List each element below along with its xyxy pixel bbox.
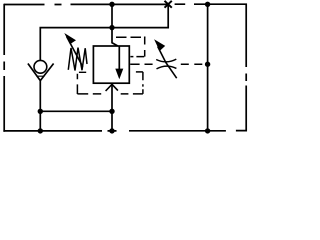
- dashed pilot line to orifice (left of orifice): [130, 63, 152, 65]
- wire: from valve bottom to bottom bus: [111, 84, 113, 131]
- node: orifice line at right bus: [205, 62, 210, 67]
- enclosure border right: [245, 4, 247, 132]
- valve V1 envelope: [93, 46, 129, 83]
- check valve CV1: seat triangle: [37, 76, 44, 80]
- spring S1 base plate: [79, 71, 86, 73]
- wire: check valve to bottom bus: [39, 81, 41, 131]
- node: junction on pilot line y28: [109, 25, 114, 30]
- dashed drain: stub right of envelope y71.9: [136, 71, 143, 73]
- enclosure border top (dash-dot): [4, 3, 185, 5]
- wire: horizontal link y111.7: [40, 110, 112, 112]
- dashed pilot line to orifice (right of orifice): [181, 63, 208, 65]
- node: top bus at right bus: [205, 2, 210, 7]
- dashed drain: bottom run y93.7: [77, 93, 142, 95]
- orifice upper arc: [156, 59, 176, 62]
- valve V1 flow arrowhead: [115, 69, 123, 80]
- spring S1 (adjustable) zigzag: [68, 48, 87, 71]
- check valve CV1: seat V: [28, 64, 54, 81]
- pilot box dashed right edge: [144, 37, 146, 57]
- plugged port X: [165, 1, 172, 8]
- adjustment arrowhead (spring): [64, 33, 76, 44]
- wire: top bus from spring side to plugged port X: [71, 3, 169, 5]
- pilot box dashed top edge: [116, 36, 145, 38]
- orifice lower arc: [157, 66, 177, 69]
- orifice adjustment arrow shaft: [158, 47, 177, 79]
- wire: main vertical from top bus into valve: [112, 4, 118, 46]
- enclosure border bottom: [3, 130, 247, 132]
- wire: from X down and left to check valve top: [40, 4, 168, 60]
- pilot box dashed bottom edge: [130, 56, 144, 58]
- orifice adjustment arrowhead: [154, 39, 165, 51]
- valve V1 flow path arrow line: [118, 46, 120, 69]
- node: link line at check valve: [38, 109, 43, 114]
- wire: top right bus segment to border corner: [194, 3, 247, 5]
- node: bottom bus at check valve: [38, 128, 43, 133]
- node: top bus at main vertical: [109, 2, 114, 7]
- node: link line at main vertical: [109, 109, 114, 114]
- dashed drain: vertical x142.9: [142, 72, 144, 94]
- enclosure border left: [3, 4, 5, 132]
- valve V1 pilot caret arrow below envelope: [106, 84, 118, 91]
- node: bottom bus at main vertical: [109, 128, 114, 133]
- dashed drain: spring chamber vertical x77.4: [76, 74, 78, 94]
- check valve CV1: ball: [34, 60, 47, 73]
- wire: right vertical bus x207.6: [207, 4, 209, 131]
- node: bottom bus at right bus: [205, 128, 210, 133]
- adjustment arrow shaft (spring): [67, 37, 83, 67]
